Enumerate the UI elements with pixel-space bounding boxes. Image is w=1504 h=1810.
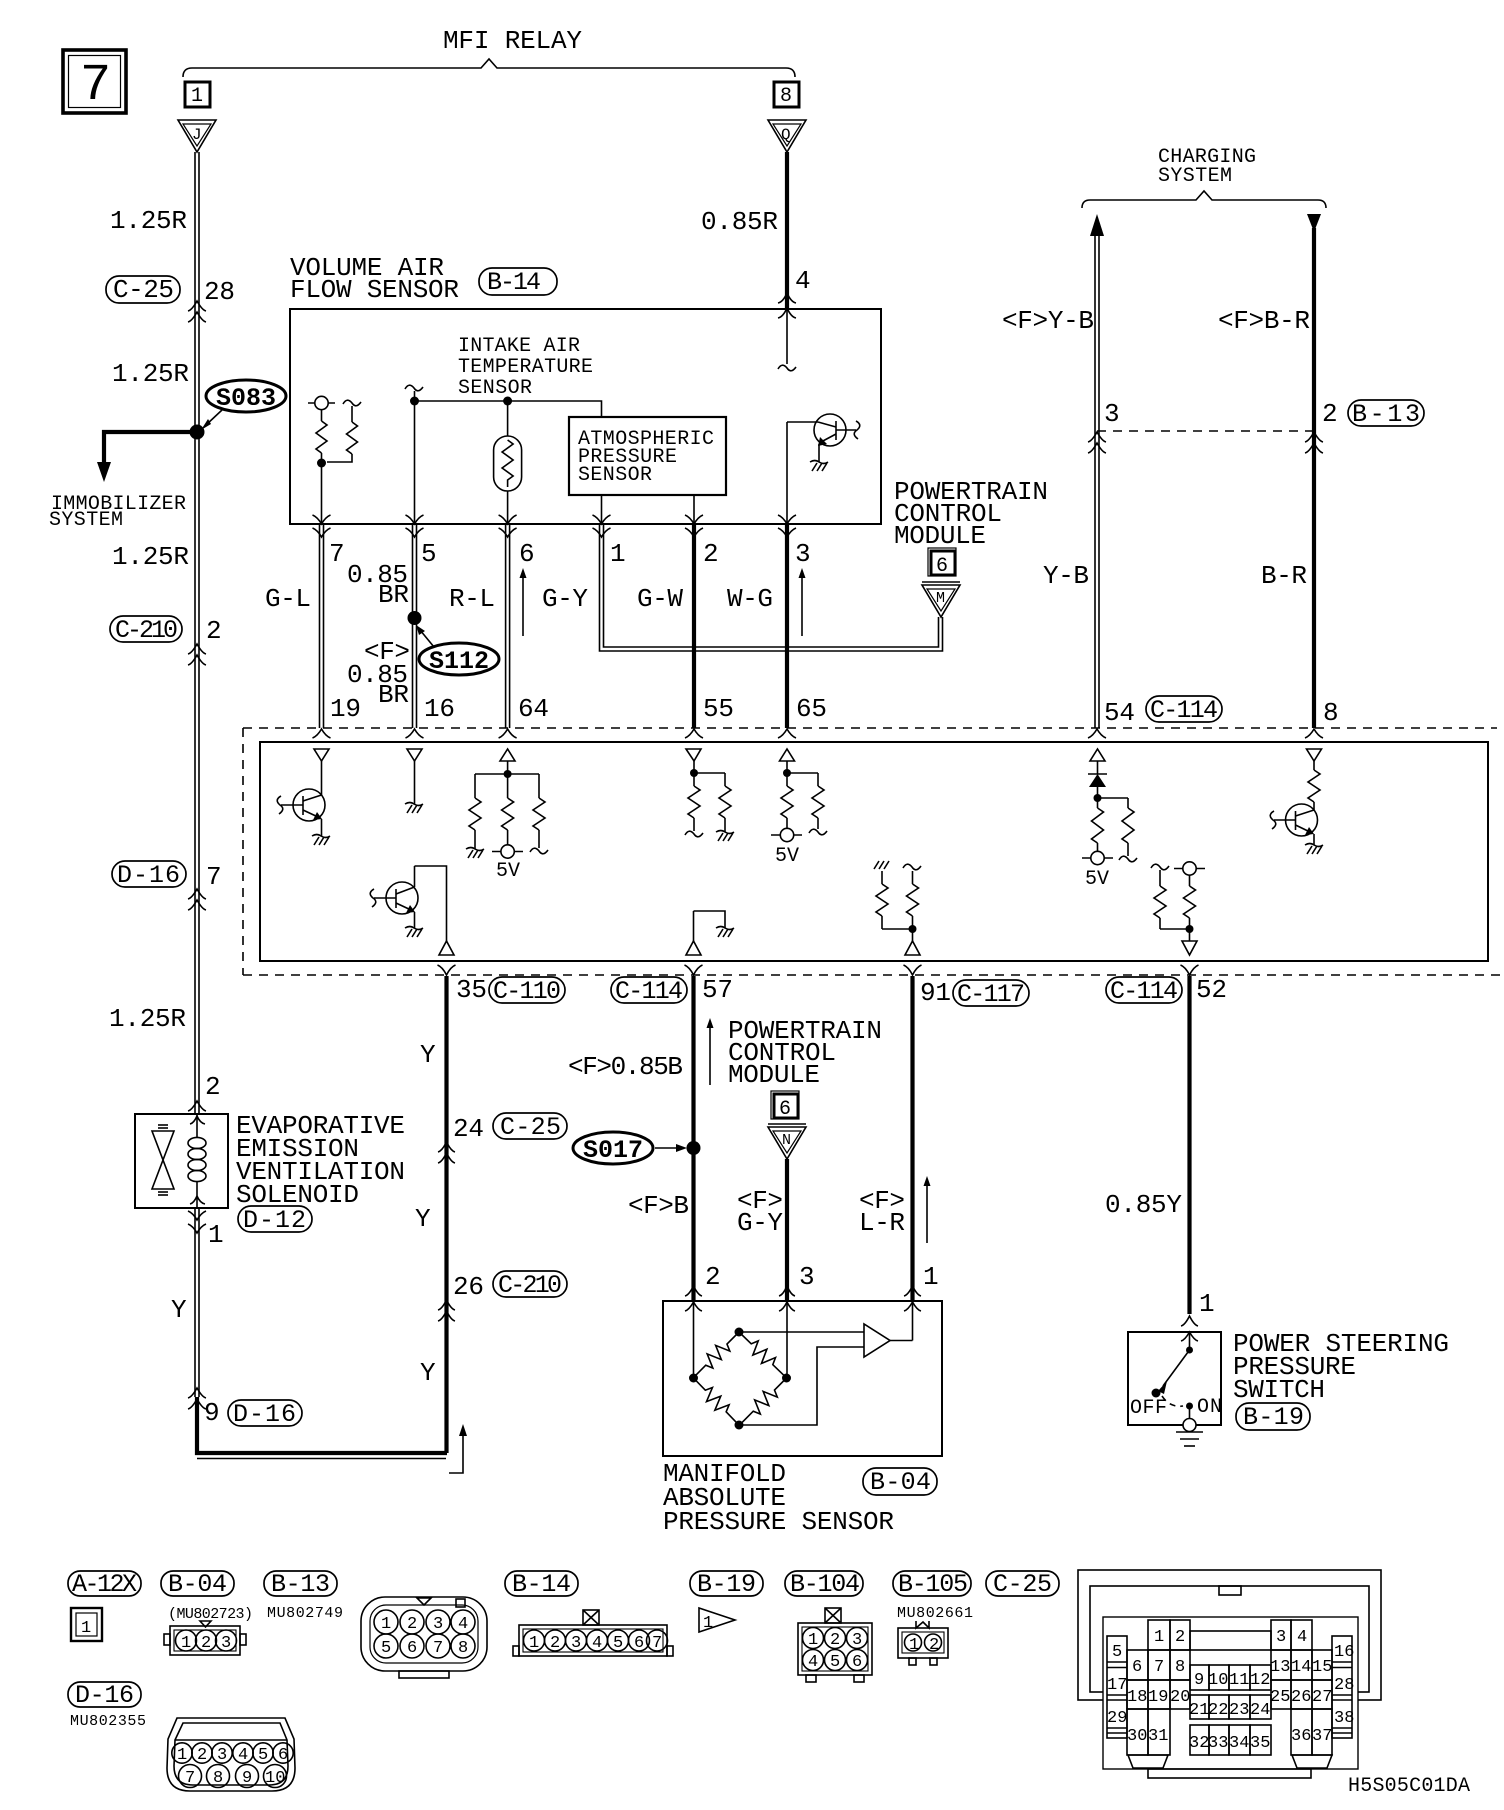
EVAPORATIVE EMISSION VENTILATION SOLENOID label [236,1111,405,1210]
PCM top pin chevrons [313,729,1324,738]
wire label (F) G-Y [737,1186,783,1238]
relay terminal box 8 [774,82,799,108]
PCM terminal N triangle [768,1124,806,1159]
wire 52 run (thick) [1187,976,1191,1314]
svg-text:SYSTEM: SYSTEM [1158,165,1232,188]
svg-text:28: 28 [204,277,235,307]
pin 54 network [1092,794,1138,862]
svg-text:4: 4 [808,1653,818,1672]
connector C-210 label lower [493,1271,567,1300]
svg-text:29: 29 [1107,1709,1127,1728]
connector crossing chevrons C-210 on Y wire [438,1300,455,1321]
svg-text:3: 3 [852,1631,862,1650]
svg-text:6: 6 [1132,1658,1142,1677]
svg-text:J: J [192,126,202,144]
svg-text:2: 2 [1175,1628,1185,1647]
bridge node right [782,1374,791,1383]
junction node S083 [190,425,205,440]
svg-text:8: 8 [1323,698,1339,728]
svg-text:31: 31 [1148,1727,1168,1746]
svg-text:10: 10 [1208,1671,1228,1690]
wire bottom run to Y wire (thick) [197,1397,447,1459]
svg-text:6: 6 [278,1746,288,1765]
wire solenoid to D-16 (hollow) [195,1208,199,1397]
svg-text:7: 7 [1154,1658,1164,1677]
direction arrow at wire 57 [707,1018,714,1085]
connector legend B-104 [785,1570,863,1599]
svg-text:4: 4 [238,1746,248,1765]
svg-text:1: 1 [610,539,626,569]
svg-text:13: 13 [1270,1658,1290,1677]
svg-text:B-14: B-14 [512,1570,571,1599]
ground at pin 55 right resistor [716,831,734,842]
pin 57 internal wire to ground [694,911,726,941]
svg-text:33: 33 [1208,1734,1228,1753]
svg-text:64: 64 [518,694,549,724]
svg-text:SYSTEM: SYSTEM [49,509,123,532]
svg-text:MU802355: MU802355 [70,1713,146,1730]
svg-text:35: 35 [456,975,487,1005]
svg-text:2: 2 [830,1631,840,1650]
connector C-114 label at pin 54 [1146,696,1222,725]
svg-text:5: 5 [613,1634,623,1653]
svg-text:Y: Y [171,1295,187,1325]
svg-text:3: 3 [799,1262,815,1292]
svg-text:4: 4 [795,266,811,296]
svg-text:8: 8 [213,1769,223,1788]
svg-text:11: 11 [1229,1671,1249,1690]
IAT sensor curl top [405,385,423,391]
pin 8 input triangle [1307,749,1322,761]
svg-text:Y: Y [420,1040,436,1070]
PCM terminal box 6 (N) [771,1091,799,1121]
svg-text:<F>B-R: <F>B-R [1218,306,1310,336]
svg-text:24: 24 [1250,1701,1270,1720]
connector D-16 label lower [228,1400,302,1429]
svg-text:7: 7 [206,862,222,892]
svg-text:20: 20 [1170,1688,1190,1707]
svg-text:3: 3 [571,1634,581,1653]
wire ON contact to case ground [1189,1406,1191,1419]
direction arrow at wire 3 [799,568,806,636]
switch contact from pin 1 [1186,1332,1193,1354]
direction arrow at wire 6 [520,568,527,636]
connector legend B-105 [893,1570,971,1599]
svg-text:2: 2 [205,1072,221,1102]
power steering pressure switch box [1128,1332,1221,1425]
svg-text:37: 37 [1312,1727,1332,1746]
svg-text:1: 1 [177,1746,187,1765]
bridge resistor top-right [734,1327,790,1382]
svg-text:3: 3 [795,539,811,569]
connector crossing chevrons C-25 [188,301,206,322]
svg-text:D-16: D-16 [75,1681,134,1710]
svg-text:PRESSURE SENSOR: PRESSURE SENSOR [663,1507,894,1537]
svg-text:B-104: B-104 [790,1570,860,1599]
wire G-L pin7 to PCM 19 (hollow) [320,524,324,728]
APS output stubs to pins 1,2 [602,495,695,524]
series resistor at pin 8 [1308,761,1320,802]
svg-text:1: 1 [181,1634,191,1653]
VAF resistor R-a [316,410,327,463]
ground at Q8 emitter [1305,844,1323,855]
case ground circle [1183,1419,1196,1432]
node IAT-b [503,397,512,406]
node IAT-a [410,397,419,406]
connector C-210 label [110,616,182,645]
svg-text:9: 9 [242,1769,252,1788]
svg-text:6: 6 [852,1653,862,1672]
relay feed wire inside sensor (pin 4) with curl [778,309,796,371]
svg-text:S112: S112 [429,647,489,676]
svg-text:5V: 5V [775,845,799,868]
page number box 7 [63,50,126,115]
svg-text:C-25: C-25 [500,1113,561,1142]
svg-text:57: 57 [702,975,733,1005]
switch blade to OFF [1152,1350,1190,1398]
relay terminal box 1 [185,82,210,108]
evaporative emission ventilation solenoid box [135,1114,228,1208]
svg-text:2: 2 [929,1636,939,1655]
PCM terminal M triangle [922,582,960,617]
ground at pin 57 [716,927,734,938]
connector B-14 label [479,268,557,297]
svg-text:7: 7 [433,1639,443,1658]
svg-text:7: 7 [329,539,345,569]
svg-text:1.25R: 1.25R [110,206,187,236]
wire VAF wiper to pin 7 [321,463,323,524]
svg-text:8: 8 [1175,1658,1185,1677]
svg-text:5V: 5V [496,860,520,883]
svg-text:17: 17 [1107,1676,1127,1695]
svg-text:34: 34 [1229,1734,1249,1753]
pin 64 pull-up network [469,761,548,854]
svg-text:5: 5 [381,1639,391,1658]
ground inside VAF [810,461,828,472]
svg-text:3: 3 [433,1615,443,1634]
svg-text:16: 16 [1334,1643,1354,1662]
svg-text:Y: Y [420,1358,436,1388]
wire bridge bottom to amplifier [739,1347,864,1425]
svg-text:2: 2 [201,1634,211,1653]
pin 16 input triangle [407,749,422,761]
svg-text:27: 27 [1312,1688,1332,1707]
powertrain control module box [260,742,1488,961]
B-13 connector drawing [361,1597,487,1678]
svg-text:FLOW SENSOR: FLOW SENSOR [290,275,459,305]
PCM bottom pin chevrons [438,965,1199,975]
IAT bus horizontal wire [415,401,602,417]
connector D-12 label [238,1206,312,1235]
connector chevron at sensor box pin 4 [778,293,796,318]
connector legend B-04 [161,1570,234,1599]
connector crossing chevrons on B-R [1305,432,1323,453]
svg-text:35: 35 [1250,1734,1270,1753]
svg-text:B-13: B-13 [271,1570,330,1599]
connector C-114 label at pin 52 [1106,977,1182,1006]
pin 19 input triangle [314,749,329,761]
svg-text:32: 32 [1189,1734,1209,1753]
svg-text:B-19: B-19 [1243,1403,1304,1432]
svg-text:4: 4 [458,1615,468,1634]
svg-text:C-210: C-210 [498,1271,562,1300]
wire 91 run (thick) [910,976,914,1301]
hatch mark at pin 91 left resistor top [874,861,889,869]
wire B-R (thick) [1312,228,1316,728]
MFI RELAY brace [183,59,795,77]
transistor Q8 [1270,802,1317,845]
connector B-19 label [1236,1403,1310,1432]
5V reference at pin 54 [1082,851,1113,891]
svg-text:30: 30 [1127,1727,1147,1746]
wire BR pin5 to PCM 16 (hollow) [413,524,417,728]
IAT junction wire [414,391,416,524]
PCM terminal box 6 (M) [928,548,956,578]
arrow down from charging system [1307,214,1321,232]
VAF output transistor Q-a [787,414,860,462]
svg-text:2: 2 [407,1615,417,1634]
switch throw arc [1162,1396,1183,1406]
svg-text:4: 4 [592,1634,602,1653]
svg-text:G-Y: G-Y [542,584,588,614]
INTAKE AIR TEMPERATURE SENSOR label [458,335,593,400]
pin 52 network [1151,864,1196,941]
svg-text:10: 10 [265,1769,285,1788]
bridge resistor top-left [689,1327,744,1382]
junction node VAF [317,459,326,468]
svg-text:G-W: G-W [637,584,683,614]
connector legend D-16 [68,1681,141,1710]
svg-text:15: 15 [1312,1658,1332,1677]
VOLUME AIR FLOW SENSOR label [290,253,459,305]
connector legend B-14 [505,1570,578,1599]
svg-text:24: 24 [453,1114,484,1144]
connector C-25 label lower [493,1113,567,1142]
svg-text:7: 7 [80,56,111,115]
VAF resistor R-b with curl [327,400,361,462]
svg-text:MFI RELAY: MFI RELAY [443,26,582,56]
connector crossing chevrons D-16 lower [188,1388,206,1409]
connector crossing chevrons D-16 [188,889,206,910]
svg-text:0.85R: 0.85R [701,207,778,237]
wire pin19 to transistor [321,761,323,795]
svg-text:2: 2 [550,1634,560,1653]
svg-text:1: 1 [191,85,203,108]
connector C-117 label [953,980,1029,1009]
pin 55 divider network [685,761,731,837]
svg-text:1: 1 [208,1220,224,1250]
svg-text:<F>B: <F>B [628,1191,689,1221]
connector C-110 label [489,977,565,1006]
arrow to immobilizer [97,462,111,482]
svg-text:3: 3 [1276,1628,1286,1647]
connector legend B-13 [264,1570,337,1599]
wire label (F) 0.85 BR [347,637,410,710]
svg-text:S017: S017 [583,1136,643,1165]
svg-text:5: 5 [258,1746,268,1765]
svg-text:26: 26 [453,1272,484,1302]
ground at Q35 emitter [405,927,423,938]
svg-text:C-25: C-25 [113,275,174,305]
connector chevron at PS switch pin 1 [1181,1316,1198,1341]
svg-text:D-16: D-16 [233,1400,296,1429]
svg-text:MU802661: MU802661 [897,1605,973,1622]
svg-text:36: 36 [1291,1727,1311,1746]
connector legend A-12X [68,1570,141,1599]
svg-text:6: 6 [779,1098,791,1121]
svg-text:2: 2 [206,616,222,646]
svg-text:C-210: C-210 [115,616,178,645]
svg-text:B-19: B-19 [697,1570,756,1599]
ATMOSPHERIC PRESSURE SENSOR label [578,428,714,487]
VAF potentiometer supply circle [308,396,335,409]
5V reference at pin 64 [492,845,523,883]
svg-text:1.25R: 1.25R [112,542,189,572]
svg-text:2: 2 [705,1262,721,1292]
svg-text:C-110: C-110 [493,977,561,1006]
connector D-16 label [112,861,186,890]
B-104 connector drawing [798,1608,872,1682]
svg-text:2: 2 [1322,399,1338,429]
svg-text:D-12: D-12 [243,1206,306,1235]
svg-text:0.85Y: 0.85Y [1105,1190,1182,1220]
svg-text:L-R: L-R [859,1208,905,1238]
svg-text:3: 3 [217,1746,227,1765]
svg-text:<F>0.85B: <F>0.85B [568,1052,683,1082]
svg-text:SENSOR: SENSOR [458,377,532,400]
pin 52 output triangle [1182,941,1197,955]
svg-text:8: 8 [780,85,792,108]
svg-text:INTAKE AIR: INTAKE AIR [458,335,580,358]
continuation arrow at bottom bend [449,1424,467,1473]
connector C-114 label at pin 57 [611,977,687,1006]
junction node S112 [408,611,422,625]
svg-text:38: 38 [1334,1709,1354,1728]
wire transistor collector to pin 3 [786,422,788,524]
wire bridge top to amplifier [739,1331,864,1333]
IAT thermistor [494,401,522,524]
connector chevron at solenoid pin 2 [188,1101,206,1111]
svg-text:5V: 5V [1085,868,1109,891]
volume air flow sensor box [290,309,881,524]
svg-text:C-114: C-114 [1110,977,1178,1006]
svg-text:Y: Y [415,1204,431,1234]
wire G-Y pin1 loop to PCM M terminal (hollow) [600,524,943,651]
ground at pin64 left resistor [466,848,484,859]
wire Q35 collector to pin 35 [415,866,447,941]
svg-text:21: 21 [1189,1701,1209,1720]
svg-text:G-Y: G-Y [737,1208,783,1238]
PCM connector drawing C-25 outer shell [1078,1570,1381,1700]
svg-text:1: 1 [909,1636,919,1655]
pin 65 output triangle [780,749,795,761]
svg-text:SWITCH: SWITCH [1233,1375,1325,1405]
svg-text:26: 26 [1291,1688,1311,1707]
svg-text:B-105: B-105 [898,1570,968,1599]
A-12X terminal drawing [71,1608,102,1641]
CHARGING SYSTEM label [1158,146,1256,188]
svg-text:1: 1 [808,1631,818,1650]
svg-text:7: 7 [185,1769,195,1788]
pin 35 output triangle [439,941,454,955]
B-14 connector drawing [513,1610,673,1656]
splice S112 [416,625,499,676]
ground at Q19 emitter [312,835,330,846]
wire label 0.85 BR [347,560,409,610]
svg-text:5: 5 [1112,1643,1122,1662]
wire Y pin35 run (thick) [444,976,448,1453]
svg-text:1: 1 [923,1262,939,1292]
5V reference at pin 65 [771,828,802,868]
svg-text:14: 14 [1291,1658,1311,1677]
PCM connector right rail [1332,1636,1352,1738]
bridge node top [735,1328,744,1337]
svg-text:C-114: C-114 [1150,696,1218,725]
pin chevrons at sensor box bottom [313,515,797,537]
svg-text:<F>Y-B: <F>Y-B [1002,306,1094,336]
svg-text:2: 2 [703,539,719,569]
connector B-13 label [1348,400,1424,429]
svg-text:1: 1 [1199,1289,1215,1319]
B-04 connector drawing [164,1621,246,1655]
svg-text:M: M [936,590,945,607]
MAP pin stubs inside [694,1301,913,1378]
manifold absolute pressure sensor box [663,1301,942,1456]
svg-text:65: 65 [796,694,827,724]
svg-text:91: 91 [920,978,951,1008]
svg-text:6: 6 [936,555,948,578]
svg-text:B-04: B-04 [168,1570,227,1599]
svg-text:C-25: C-25 [993,1570,1052,1599]
wire pin16 to ground [414,761,416,804]
pin 64 output triangle [500,749,515,761]
connector B-04 label [863,1468,937,1497]
svg-text:Y-B: Y-B [1043,561,1089,591]
svg-text:3: 3 [1104,399,1120,429]
svg-text:Q: Q [781,126,791,144]
svg-text:MU802749: MU802749 [267,1605,343,1622]
D-16 connector drawing [167,1718,295,1791]
pin 91 output triangle [905,941,920,955]
svg-text:OFF: OFF [1130,1397,1167,1420]
svg-text:12: 12 [1250,1671,1270,1690]
svg-text:B-R: B-R [1261,561,1307,591]
PCM connector pin cells [1107,1620,1354,1755]
relay terminal Q triangle [768,120,806,152]
relay terminal J triangle [178,120,216,152]
svg-text:B-14: B-14 [487,268,541,297]
PCM connector left rail [1107,1636,1127,1738]
5V style circle at pin 52 right resistor [1174,862,1205,875]
wire amplifier output to pin 1 [890,1340,913,1342]
transistor Q19 [277,789,325,836]
IMMOBILIZER SYSTEM label [49,493,186,532]
svg-text:19: 19 [1148,1688,1168,1707]
PCM connector main body [1103,1617,1358,1778]
POWER STEERING PRESSURE SWITCH label [1233,1329,1449,1405]
svg-text:1: 1 [529,1634,539,1653]
svg-text:C-117: C-117 [957,980,1025,1009]
svg-text:5: 5 [421,539,437,569]
svg-text:1.25R: 1.25R [109,1004,186,1034]
svg-text:55: 55 [703,694,734,724]
svg-text:1: 1 [1154,1628,1164,1647]
connector legend B-19 [690,1570,763,1599]
solenoid valve symbol [152,1125,174,1195]
wire W-G pin3 to PCM 65 (thick) [785,524,789,728]
pin 55 input triangle [686,749,701,761]
svg-text:54: 54 [1104,698,1135,728]
